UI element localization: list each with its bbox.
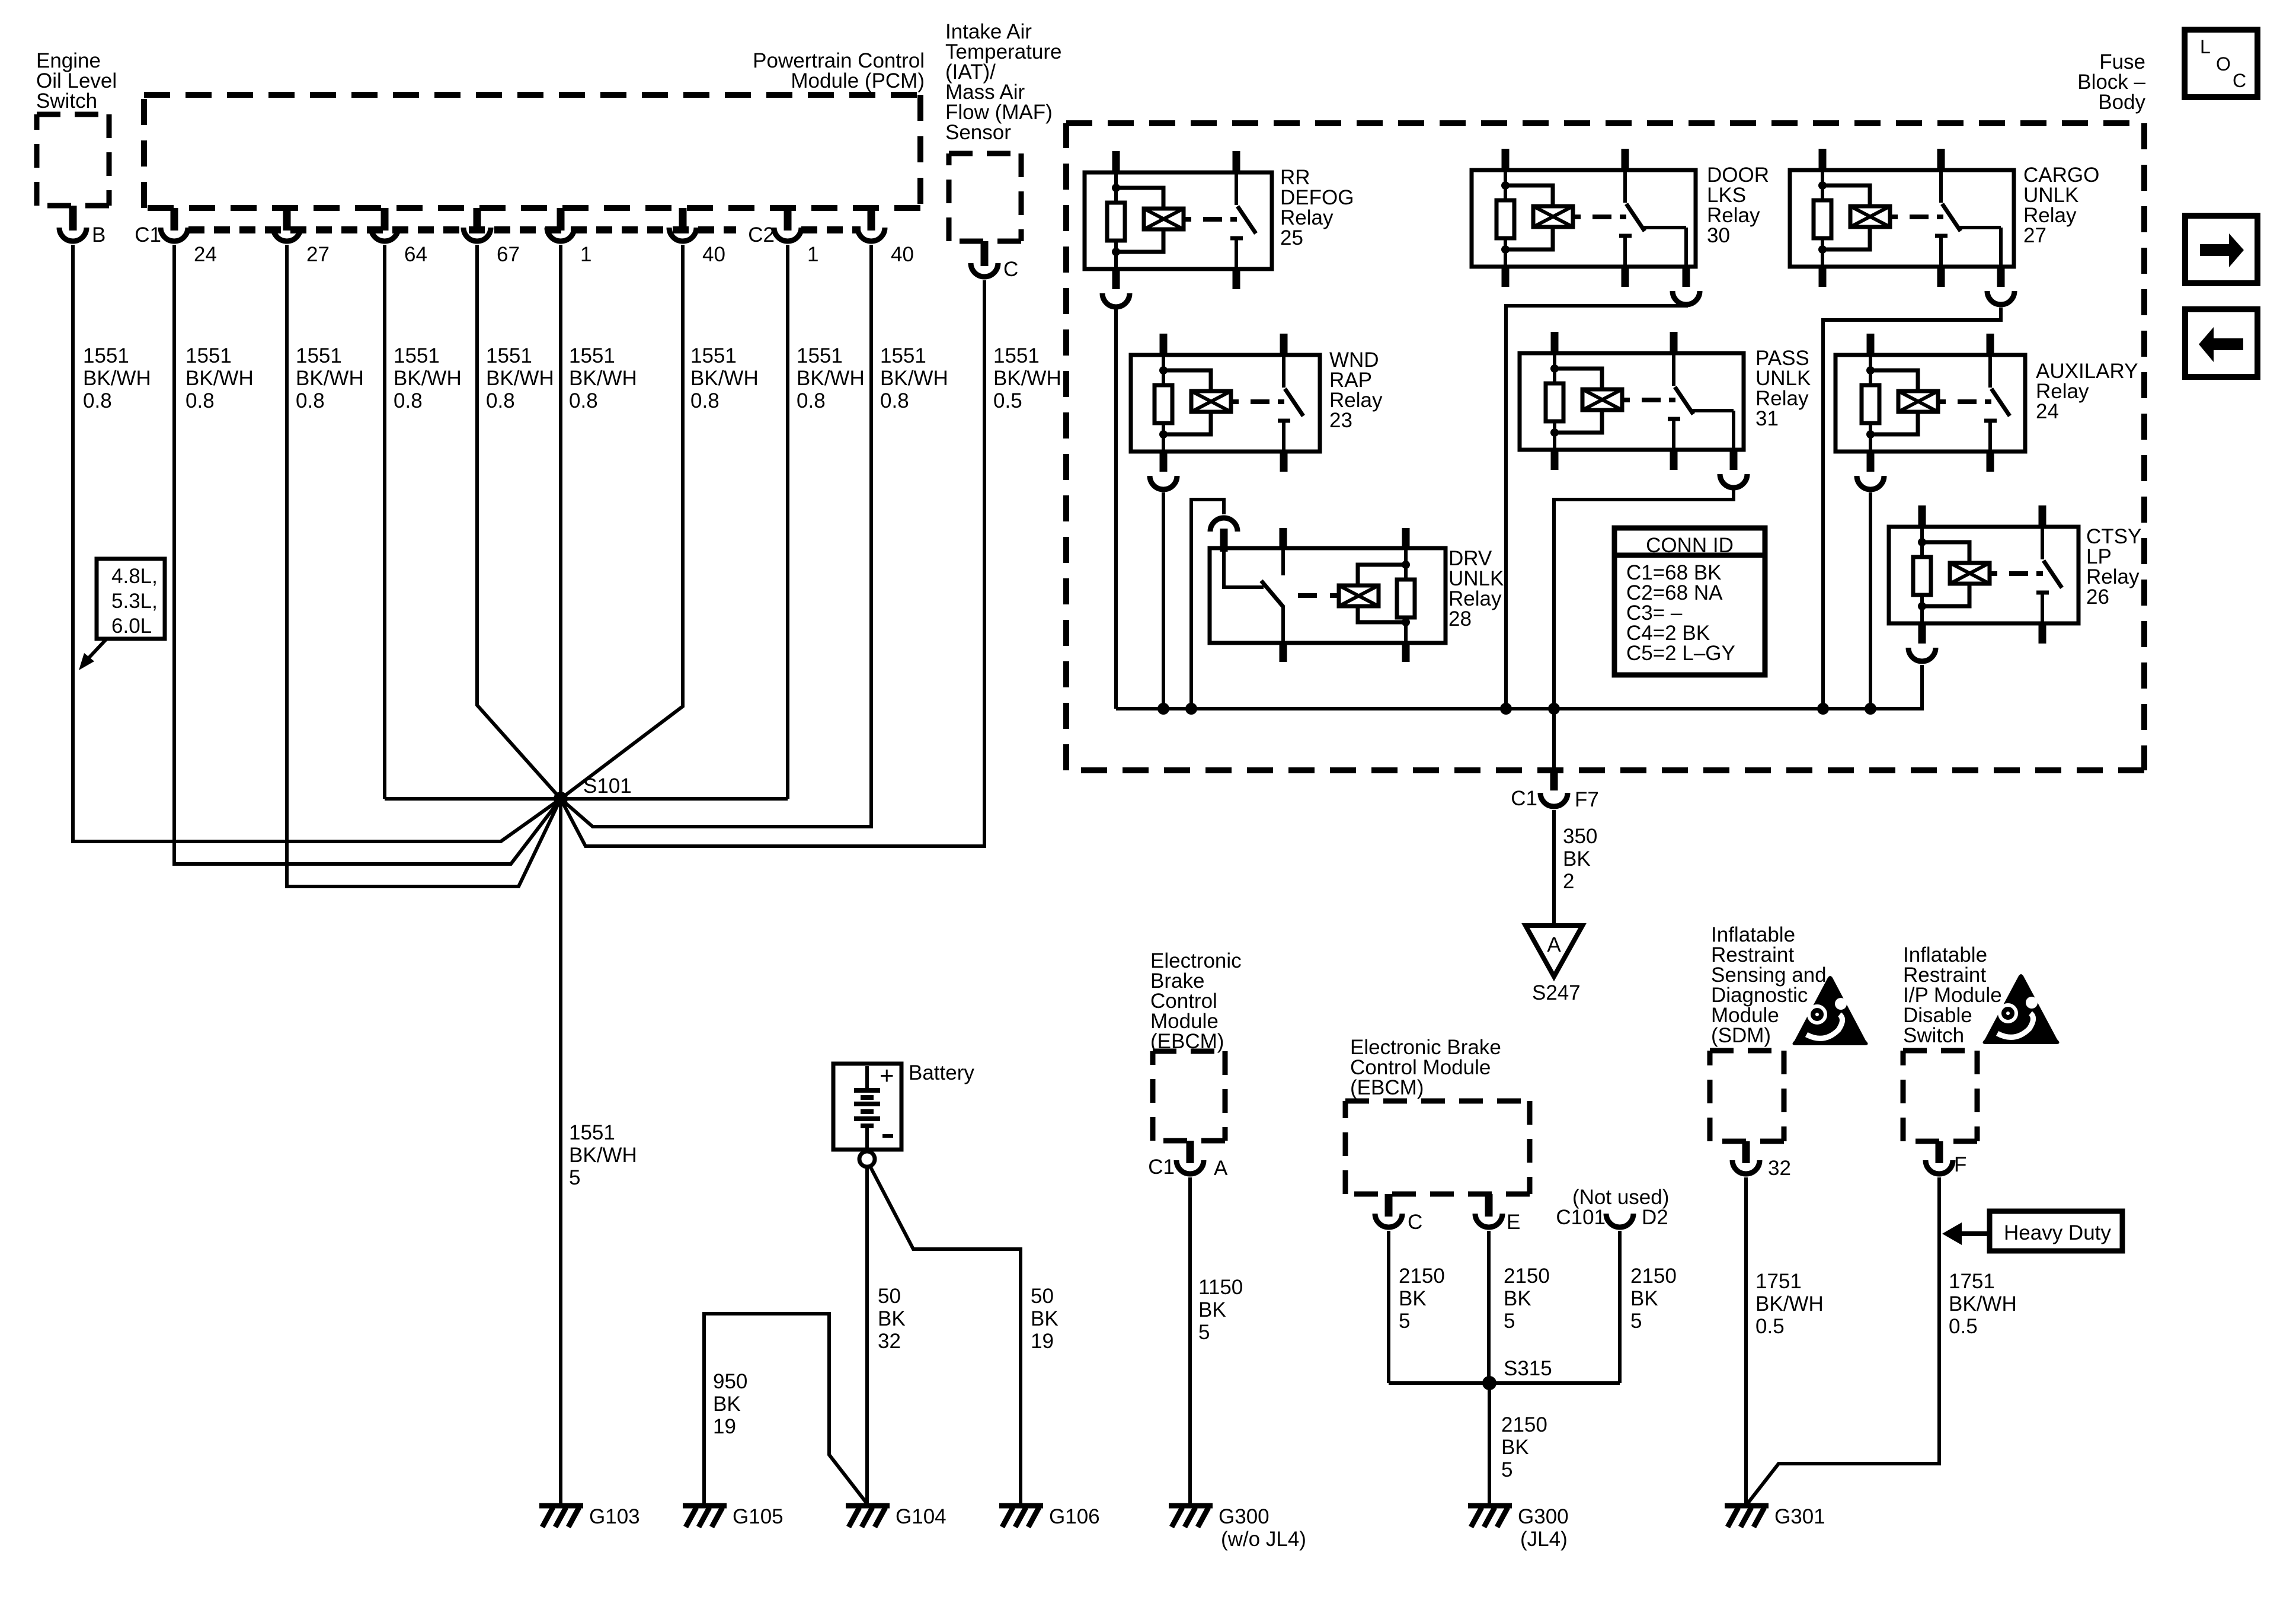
svg-text:Switch: Switch (1903, 1024, 1964, 1047)
svg-text:40: 40 (891, 243, 914, 266)
svg-text:Body: Body (2098, 91, 2145, 114)
svg-text:350: 350 (1563, 825, 1597, 848)
svg-text:5: 5 (1198, 1321, 1210, 1344)
svg-text:F7: F7 (1575, 788, 1599, 811)
svg-text:C: C (2233, 70, 2246, 91)
svg-text:64: 64 (404, 243, 427, 266)
svg-text:Sensor: Sensor (945, 121, 1011, 144)
svg-text:0.8: 0.8 (83, 389, 112, 412)
svg-text:25: 25 (1280, 226, 1303, 249)
svg-text:19: 19 (1031, 1330, 1054, 1353)
svg-text:G300: G300 (1518, 1505, 1569, 1528)
svg-text:BK/WH: BK/WH (394, 367, 462, 390)
svg-text:1551: 1551 (993, 344, 1040, 367)
svg-text:BK: BK (1198, 1298, 1226, 1321)
svg-text:0.8: 0.8 (690, 389, 720, 412)
svg-text:BK: BK (1031, 1307, 1059, 1330)
svg-text:BK/WH: BK/WH (797, 367, 865, 390)
svg-text:0.8: 0.8 (880, 389, 909, 412)
svg-text:C101: C101 (1556, 1206, 1606, 1229)
svg-text:1751: 1751 (1755, 1270, 1802, 1293)
svg-text:50: 50 (878, 1285, 901, 1308)
svg-text:BK: BK (1563, 847, 1591, 870)
svg-text:5: 5 (1504, 1310, 1515, 1333)
svg-text:32: 32 (1768, 1157, 1791, 1180)
svg-text:O: O (2216, 53, 2231, 75)
svg-text:BK: BK (1630, 1287, 1658, 1310)
svg-text:27: 27 (2023, 224, 2046, 247)
svg-text:C: C (1003, 258, 1018, 281)
svg-text:Module (PCM): Module (PCM) (791, 69, 925, 92)
svg-text:1551: 1551 (569, 344, 615, 367)
svg-text:BK/WH: BK/WH (1949, 1292, 2017, 1315)
svg-text:0.8: 0.8 (186, 389, 215, 412)
svg-text:1551: 1551 (797, 344, 843, 367)
svg-text:G103: G103 (589, 1505, 640, 1528)
svg-text:A: A (1214, 1157, 1228, 1180)
svg-text:0.8: 0.8 (296, 389, 325, 412)
svg-text:BK: BK (1501, 1436, 1529, 1459)
svg-text:BK: BK (878, 1307, 906, 1330)
svg-text:L: L (2200, 36, 2211, 57)
svg-text:C5=2 L–GY: C5=2 L–GY (1626, 642, 1735, 665)
svg-text:D2: D2 (1642, 1206, 1668, 1229)
svg-text:Switch: Switch (36, 89, 97, 113)
svg-text:0.8: 0.8 (486, 389, 515, 412)
svg-text:27: 27 (306, 243, 330, 266)
svg-text:BK/WH: BK/WH (569, 1144, 637, 1167)
svg-text:(SDM): (SDM) (1711, 1024, 1771, 1047)
svg-text:0.8: 0.8 (569, 389, 598, 412)
svg-text:5.3L,: 5.3L, (111, 590, 158, 613)
svg-text:E: E (1507, 1211, 1520, 1234)
svg-text:0.5: 0.5 (1949, 1315, 1978, 1338)
svg-text:CONN ID: CONN ID (1646, 534, 1734, 557)
svg-text:BK: BK (1504, 1287, 1531, 1310)
svg-text:24: 24 (2036, 400, 2059, 423)
svg-text:40: 40 (702, 243, 725, 266)
svg-text:4.8L,: 4.8L, (111, 565, 158, 588)
svg-text:32: 32 (878, 1330, 901, 1353)
svg-text:BK/WH: BK/WH (83, 367, 151, 390)
svg-text:A: A (1547, 933, 1561, 956)
svg-text:5: 5 (1501, 1458, 1512, 1481)
svg-text:G105: G105 (733, 1505, 784, 1528)
svg-text:24: 24 (194, 243, 217, 266)
svg-text:1551: 1551 (83, 344, 129, 367)
svg-text:G104: G104 (896, 1505, 946, 1528)
svg-text:C1: C1 (1148, 1156, 1175, 1179)
svg-text:2150: 2150 (1501, 1413, 1547, 1436)
svg-text:50: 50 (1031, 1285, 1054, 1308)
svg-text:1150: 1150 (1198, 1276, 1243, 1299)
svg-text:BK: BK (1399, 1287, 1427, 1310)
svg-text:BK/WH: BK/WH (486, 367, 554, 390)
svg-text:5: 5 (1399, 1310, 1410, 1333)
svg-text:2150: 2150 (1630, 1265, 1677, 1288)
svg-text:C2: C2 (748, 223, 775, 247)
svg-text:BK: BK (713, 1393, 741, 1416)
svg-text:G301: G301 (1774, 1505, 1825, 1528)
svg-text:BK/WH: BK/WH (993, 367, 1061, 390)
svg-text:G106: G106 (1049, 1505, 1100, 1528)
svg-text:31: 31 (1755, 407, 1779, 430)
svg-text:67: 67 (497, 243, 520, 266)
svg-text:1: 1 (580, 243, 591, 266)
svg-text:5: 5 (1630, 1310, 1642, 1333)
svg-text:1551: 1551 (690, 344, 737, 367)
svg-text:S247: S247 (1532, 981, 1581, 1004)
svg-text:0.5: 0.5 (1755, 1315, 1785, 1338)
svg-text:1551: 1551 (186, 344, 232, 367)
svg-text:C1: C1 (135, 223, 161, 247)
svg-text:BK/WH: BK/WH (296, 367, 364, 390)
svg-text:BK/WH: BK/WH (1755, 1292, 1824, 1315)
svg-text:26: 26 (2086, 585, 2109, 609)
svg-text:F: F (1954, 1153, 1966, 1176)
svg-text:1: 1 (807, 243, 818, 266)
svg-text:Battery: Battery (909, 1061, 974, 1084)
svg-text:+: + (880, 1061, 894, 1089)
svg-text:1551: 1551 (880, 344, 926, 367)
svg-text:BK/WH: BK/WH (690, 367, 759, 390)
svg-text:2: 2 (1563, 870, 1574, 893)
svg-text:950: 950 (713, 1370, 747, 1393)
svg-text:30: 30 (1707, 224, 1730, 247)
svg-text:Heavy Duty: Heavy Duty (2004, 1221, 2111, 1244)
svg-text:S315: S315 (1504, 1357, 1552, 1380)
svg-text:2150: 2150 (1504, 1265, 1550, 1288)
svg-text:1551: 1551 (394, 344, 440, 367)
svg-text:0.8: 0.8 (797, 389, 826, 412)
svg-text:BK/WH: BK/WH (186, 367, 254, 390)
svg-text:(w/o JL4): (w/o JL4) (1221, 1528, 1306, 1551)
svg-text:28: 28 (1448, 607, 1472, 630)
svg-text:6.0L: 6.0L (111, 614, 152, 638)
svg-text:23: 23 (1329, 409, 1352, 432)
svg-text:0.8: 0.8 (394, 389, 423, 412)
svg-text:(EBCM): (EBCM) (1350, 1076, 1424, 1099)
svg-text:BK/WH: BK/WH (569, 367, 637, 390)
svg-text:C: C (1408, 1211, 1422, 1234)
svg-text:1751: 1751 (1949, 1270, 1995, 1293)
svg-text:1551: 1551 (569, 1121, 615, 1144)
svg-text:5: 5 (569, 1166, 580, 1189)
svg-text:0.5: 0.5 (993, 389, 1022, 412)
svg-text:B: B (92, 223, 105, 247)
svg-text:BK/WH: BK/WH (880, 367, 948, 390)
svg-text:1551: 1551 (486, 344, 532, 367)
svg-text:19: 19 (713, 1415, 736, 1438)
svg-text:1551: 1551 (296, 344, 342, 367)
svg-text:2150: 2150 (1399, 1265, 1445, 1288)
svg-text:G300: G300 (1219, 1505, 1269, 1528)
svg-text:(JL4): (JL4) (1520, 1528, 1568, 1551)
svg-text:C1: C1 (1511, 787, 1537, 810)
